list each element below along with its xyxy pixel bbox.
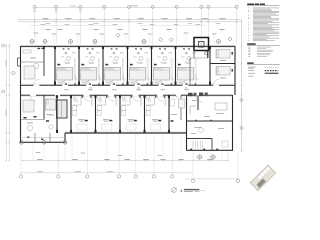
dim text under C — [216, 22, 221, 25]
core detail — [205, 52, 208, 55]
lobby left wall — [186, 95, 188, 150]
lower suite table — [27, 125, 32, 130]
general plan notes underline — [247, 5, 280, 7]
guestroom closet wall lines — [146, 58, 148, 80]
top horizontal dimension line A — [35, 7, 237, 9]
grid bubble top 2 — [55, 5, 58, 8]
left dim tick — [5, 84, 7, 86]
legend underline — [247, 64, 280, 66]
tag below building — [158, 154, 163, 157]
grid bubble top 10 — [235, 5, 238, 8]
grid line stem top 1 — [34, 5, 36, 44]
door arc lower room — [196, 95, 203, 102]
key plan rotated building — [250, 165, 275, 190]
lower guestroom low furniture — [151, 124, 161, 130]
bottom dim text — [143, 158, 149, 161]
right vertical dimension line — [241, 20, 243, 152]
upper room divider walls — [54, 46, 56, 85]
guestroom closet — [195, 75, 197, 84]
lobby planter — [222, 141, 228, 147]
guestroom bed — [105, 68, 121, 81]
guestroom closet — [123, 75, 125, 84]
guestroom wall fixtures — [111, 48, 113, 49]
lower guestroom bath walls — [73, 104, 81, 106]
right room A bed — [216, 50, 230, 59]
grid bubble top 6 — [151, 5, 154, 8]
bottom dim text — [37, 158, 43, 161]
mid tick — [92, 19, 94, 21]
corridor room number text — [161, 88, 166, 91]
grid bubble bottom 2 — [57, 143, 59, 175]
bottom dim E text — [75, 170, 81, 173]
annotation tag row2 — [52, 33, 57, 36]
door arc lower room — [133, 95, 139, 101]
dim text — [162, 17, 168, 20]
annotation tag row2 — [100, 33, 105, 36]
lower guestroom dark dash — [85, 120, 88, 122]
drawing title rule — [184, 190, 205, 192]
corridor room number text — [88, 88, 93, 91]
lower guestroom low furniture — [102, 124, 112, 130]
grid bubble bottom 8 — [192, 151, 194, 179]
lower suite fixtures — [24, 117, 27, 119]
lobby wall marks — [195, 120, 197, 121]
dim text row D — [89, 23, 94, 26]
lower room divider walls — [56, 95, 58, 133]
bottom dim tick — [57, 160, 59, 162]
bottom dimension line main — [22, 160, 228, 162]
lower left suite partition h — [21, 119, 45, 121]
guestroom keynote circle — [139, 57, 143, 61]
legend row 2 label — [248, 69, 254, 72]
guestroom keynote circle — [67, 57, 71, 61]
annotation tag row2 — [124, 33, 129, 36]
grid bubble top 9 — [207, 5, 210, 8]
guestroom label — [113, 62, 118, 65]
door arc upper room — [159, 79, 165, 85]
lobby wall y138.5 — [187, 138, 213, 140]
door arc lower room — [176, 95, 181, 100]
lower suite label — [27, 122, 33, 125]
corridor north wall — [21, 84, 34, 86]
lower guestroom bath walls — [98, 104, 106, 106]
dim text — [114, 17, 120, 20]
tag below building — [36, 151, 41, 154]
keynote diamond symbol — [11, 71, 15, 75]
guestroom keynote circle — [187, 57, 191, 61]
grid bubble top 7 — [175, 5, 178, 8]
lower guestroom closet tall — [73, 106, 77, 111]
stem x228 — [227, 152, 229, 161]
guestroom side blob — [178, 64, 181, 66]
guestroom closet — [147, 75, 149, 84]
guestroom keynote circle — [115, 57, 119, 61]
dim text under C — [138, 22, 143, 25]
corridor room number text — [64, 88, 69, 91]
left vertical dimension line 2 — [8, 44, 10, 161]
keynote diamond symbol — [159, 38, 163, 42]
guestroom door side marks — [114, 83, 116, 85]
bottom dim tick — [153, 160, 155, 162]
right dim tick — [241, 94, 243, 96]
guestroom closet wall lines — [170, 58, 172, 80]
column symbol — [217, 40, 221, 44]
lower guestroom bath fixtures — [123, 99, 126, 102]
lower guestroom door side marks — [155, 96, 157, 98]
guestroom bath fixtures — [131, 82, 134, 85]
door arc lower room — [30, 95, 36, 101]
lobby wall x212 — [211, 139, 213, 151]
stem row D — [197, 26, 199, 30]
dim tick — [236, 19, 238, 21]
guestroom misc marks — [145, 52, 149, 55]
legend row 4 label — [248, 75, 253, 78]
guestroom bath fixtures — [83, 82, 86, 85]
annotation tag row2 — [76, 33, 81, 36]
grid bubble bottom 5 — [135, 134, 137, 175]
guestroom label — [89, 62, 94, 65]
dim text top A2 — [70, 5, 76, 8]
door arc upper room — [110, 79, 116, 85]
door arc upper room — [183, 79, 189, 85]
stem row D — [66, 26, 68, 30]
grid bubble top 8 — [200, 5, 203, 8]
guestroom misc marks — [193, 52, 197, 55]
column symbol — [30, 40, 34, 44]
guestroom bath walls — [154, 81, 162, 83]
legend row 2 swatch heavy dashed — [265, 70, 279, 72]
stem below building — [145, 134, 147, 161]
corridor south wall — [21, 94, 31, 96]
guestroom bed — [81, 68, 97, 81]
guestroom wall fixtures — [63, 48, 65, 49]
annotation tag row2 — [212, 33, 217, 36]
guestroom door side marks — [90, 83, 92, 85]
door arc lower room — [108, 95, 114, 101]
general plan notes text block — [248, 7, 249, 10]
legend row 3 label — [248, 72, 255, 75]
stem below building — [71, 134, 73, 161]
dim text — [220, 17, 226, 20]
lower guestroom low furniture — [77, 124, 87, 130]
keynotes underline — [247, 44, 280, 46]
door arc lower room — [157, 95, 163, 101]
annotation tag — [45, 29, 50, 30]
lobby stair lines — [192, 141, 194, 149]
column symbol — [93, 40, 97, 44]
bottom dim E text — [37, 170, 43, 173]
tag below building — [118, 154, 123, 157]
lobby bottom wall — [187, 149, 234, 151]
guestroom side blob — [57, 64, 60, 66]
guestroom wall fixtures — [135, 48, 137, 49]
lower guestroom label — [128, 119, 134, 120]
left dim tick — [5, 160, 7, 162]
stem below building — [106, 134, 108, 161]
guestroom bath fixtures — [179, 82, 182, 85]
lower guestroom closet — [115, 97, 117, 106]
lower guestroom label — [103, 119, 109, 120]
left dim text — [6, 60, 7, 66]
guestroom bath walls — [81, 81, 89, 83]
grid line stem top 3 — [79, 5, 81, 44]
building bottom wall cavity — [65, 131, 187, 133]
door arc upper room — [34, 79, 40, 85]
bottom dim tick — [118, 160, 120, 162]
guestroom wall fixtures — [183, 48, 185, 49]
guestroom closet wall lines — [74, 58, 76, 80]
corridor center tag — [185, 87, 187, 89]
building top wall cavity line — [21, 47, 236, 49]
lower mid room bed — [46, 99, 56, 110]
lower guestroom label — [79, 119, 85, 120]
right rooms divider — [210, 63, 235, 65]
upper vestibule wall — [189, 58, 191, 85]
keynote diamond symbol — [169, 38, 173, 42]
tag stem — [35, 34, 37, 45]
dim text row D — [113, 23, 118, 26]
stem below building — [221, 151, 223, 160]
left suite table — [33, 63, 39, 69]
guestroom closet — [75, 75, 77, 84]
left wing step wall — [64, 133, 66, 142]
core south wall — [207, 51, 209, 59]
keynotes header — [247, 43, 256, 45]
grid bubble top 5 — [127, 5, 130, 8]
bottom dim tick — [209, 160, 211, 162]
bottom dim text — [72, 158, 78, 161]
keynote diamond symbol — [116, 33, 120, 37]
right rooms labels — [220, 59, 226, 62]
dim tick — [128, 19, 130, 21]
core vestibule walls — [193, 51, 195, 59]
right dim tick — [241, 84, 243, 86]
door arc upper room — [135, 79, 141, 85]
door arc upper room — [213, 79, 219, 85]
guestroom closet wall lines — [194, 58, 196, 80]
grid line stem top 5 — [128, 5, 130, 44]
corridor center tag — [89, 87, 91, 89]
right keynote diamond 1 — [240, 98, 244, 102]
bottom dim text — [104, 158, 110, 161]
lower guestroom bath walls — [122, 104, 130, 106]
building right wall upper — [234, 46, 236, 95]
guestroom bath fixtures — [155, 82, 158, 85]
left wing partitions — [34, 133, 36, 142]
dim tick — [208, 19, 210, 21]
guestroom side blob — [130, 64, 133, 66]
dim text — [42, 17, 48, 20]
lower guestroom dark dash — [158, 120, 161, 122]
bottom dim text — [124, 158, 130, 161]
bottom dim tick — [227, 160, 229, 162]
guestroom misc marks — [169, 52, 173, 55]
bottom dim text — [160, 158, 166, 161]
stem below building — [32, 143, 34, 160]
tag stem — [185, 34, 187, 45]
column symbols bottom left wall — [20, 140, 24, 144]
guestroom bath walls — [130, 81, 138, 83]
building bottom wall main — [65, 132, 187, 134]
annotation tag — [219, 29, 224, 30]
guestroom bed — [177, 68, 193, 81]
lower guestroom closet tall — [146, 106, 150, 111]
guestroom door side marks — [138, 83, 140, 85]
corridor room number text — [112, 88, 117, 91]
grid line stem top 8 — [200, 5, 202, 44]
grid line stem top 6 — [152, 5, 154, 44]
guestroom bath fixtures — [107, 82, 110, 85]
left suite sofa — [23, 50, 31, 53]
right dim tick — [241, 132, 243, 134]
lower suite bed — [23, 100, 34, 112]
guestroom label — [162, 62, 167, 65]
lower guestroom low furniture — [126, 124, 136, 130]
lobby wall y121 — [187, 120, 233, 122]
stem below building — [43, 143, 45, 160]
dim tick — [55, 19, 57, 21]
lower guestroom label — [152, 119, 158, 120]
dim text — [202, 17, 208, 20]
dim text under C — [188, 22, 193, 25]
dim text top A — [130, 4, 138, 7]
dim text — [138, 17, 144, 20]
grid bubble bottom 4 — [118, 134, 120, 175]
bottom dim text — [207, 158, 213, 161]
left dim tick — [5, 45, 7, 47]
mid tick — [164, 19, 166, 21]
door arc upper room — [86, 79, 92, 85]
bottom dim tick — [162, 160, 164, 162]
annotation tag — [117, 29, 122, 30]
building left wall — [20, 46, 22, 142]
right rooms fixtures — [232, 52, 233, 55]
lobby right wall — [232, 95, 234, 150]
right dim tick — [241, 45, 243, 47]
dim text row D — [41, 23, 46, 26]
lower guestroom closet tall — [122, 106, 126, 111]
dim text row D — [65, 23, 70, 26]
guestroom bed — [153, 68, 169, 81]
guestroom misc marks — [120, 52, 124, 55]
mid tick — [45, 19, 47, 21]
mid tick — [188, 19, 190, 21]
annotation tag row2 — [34, 32, 39, 35]
drawing title text — [184, 189, 200, 190]
dim text under C — [94, 22, 99, 25]
tag stem — [125, 35, 127, 45]
stem row D — [42, 26, 44, 30]
mid tick — [222, 19, 224, 21]
stem below building — [180, 134, 182, 161]
guestroom bed — [57, 68, 73, 81]
right dim tick — [241, 149, 243, 151]
annotation tag row2 — [184, 32, 189, 35]
room 169-186 fixtures — [171, 120, 174, 122]
elevator cab — [199, 41, 204, 47]
grid bubble top 1 — [33, 5, 36, 8]
lower left suite partition v — [43, 95, 45, 119]
left suite partition — [43, 46, 45, 76]
grid bubble bottom 6 — [153, 134, 155, 175]
dim tick — [201, 19, 203, 21]
corridor north wall cavity — [21, 83, 236, 85]
guestroom side blob — [105, 64, 108, 66]
lower room 169-186 partition — [180, 95, 182, 120]
left suite label — [30, 57, 36, 60]
grid bubble top 3 — [79, 5, 82, 8]
stem below building — [64, 143, 66, 160]
dim text — [65, 17, 71, 20]
lower guestroom dark dash — [134, 120, 137, 122]
lobby column squares — [190, 149, 192, 151]
lobby sofa — [190, 105, 196, 107]
dim text row D — [196, 23, 201, 26]
corridor room number text — [185, 88, 190, 91]
door arc lower room — [55, 95, 60, 100]
left suite step bump — [18, 57, 21, 59]
guestroom label — [65, 62, 70, 65]
bottom dim tick — [180, 160, 182, 162]
lower mid room fixtures — [46, 120, 49, 122]
guestroom keynote circle — [91, 57, 95, 61]
dim text — [186, 17, 192, 20]
guestroom closet — [99, 75, 101, 84]
guestroom bath walls — [178, 81, 186, 83]
legend row 1 label — [248, 66, 256, 69]
right keynote diamond 2 — [240, 126, 244, 130]
dimension line C — [18, 21, 242, 23]
guestroom wall fixtures — [87, 48, 89, 49]
guestroom label — [186, 62, 191, 65]
door arc lower room — [84, 95, 90, 101]
annotation tag — [142, 29, 147, 30]
guestroom closet — [171, 75, 173, 84]
left grid bubble B — [2, 90, 5, 93]
lower guestroom door side marks — [131, 96, 133, 98]
bottom dim tick — [145, 160, 147, 162]
dimension line D partial — [30, 25, 118, 27]
lower mid room texts — [46, 113, 51, 116]
annotation tag — [93, 29, 98, 30]
bottom dim tick — [86, 160, 88, 162]
bottom dim tick — [106, 160, 108, 162]
left suite kitchen line — [20, 70, 22, 80]
lobby wall x198 — [197, 95, 199, 110]
lobby table — [199, 128, 204, 133]
mid tick — [116, 19, 118, 21]
guestroom bath walls — [57, 81, 65, 83]
grid line stem top 4 — [103, 5, 105, 44]
guestroom wall fixtures — [159, 48, 161, 49]
bottom dimension line E — [21, 172, 193, 174]
legend row 1 swatch light dashed — [265, 67, 279, 69]
column symbol — [43, 40, 47, 44]
grid bubble top 4 — [103, 5, 106, 8]
annotation tag — [57, 29, 62, 30]
left dim tick — [5, 94, 7, 96]
stairwell — [57, 100, 68, 118]
tag stem — [213, 35, 215, 45]
left dim tick — [5, 132, 7, 134]
corridor center tag — [137, 87, 139, 89]
lower guestroom closet tall — [97, 106, 101, 111]
general plan notes header — [247, 4, 254, 6]
tag stem — [77, 35, 79, 45]
mid tick — [140, 19, 142, 21]
lower guestroom bath walls — [147, 104, 155, 106]
stem below building — [209, 151, 211, 160]
